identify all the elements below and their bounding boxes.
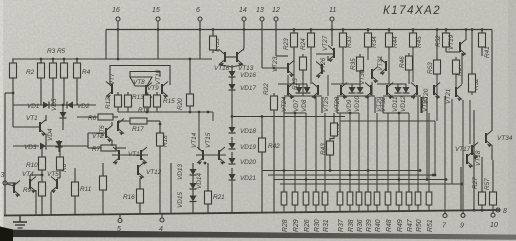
wire R11-gnd <box>74 196 76 215</box>
resistor R31 <box>322 189 328 208</box>
resistor R6 <box>95 114 116 120</box>
wire R41 top <box>481 30 483 34</box>
wire link <box>371 82 373 96</box>
wire R41 bot <box>481 47 483 56</box>
wire R39 gnd <box>367 205 369 211</box>
resistor R12 <box>115 92 122 110</box>
wire R52 bot <box>445 47 447 52</box>
wire VT2 base v <box>87 133 89 148</box>
wire R45 top <box>412 30 414 34</box>
wire bus A <box>262 170 420 172</box>
wire mirror loop inner <box>130 72 160 78</box>
resistor R11 <box>72 179 79 199</box>
wire pin3-VT3 <box>7 184 14 186</box>
diode VD4 <box>56 141 63 147</box>
wire R30 gnd <box>315 205 317 212</box>
wire link <box>287 75 289 96</box>
wire pin5 stub <box>119 214 121 218</box>
wire bus C <box>274 179 446 181</box>
wire VT5 base h <box>57 177 60 179</box>
wire pin13-VT23 base <box>262 67 288 69</box>
wire R34 top <box>367 30 369 34</box>
wire VD21 top <box>231 168 233 174</box>
wire vd chain b <box>192 175 194 183</box>
wire vd chain a <box>192 163 194 169</box>
wire R10 top <box>41 146 43 157</box>
resistor R15 <box>154 92 161 110</box>
wire R50 gnd <box>417 205 419 211</box>
wire pin3 up <box>4 93 6 183</box>
wire pin12 link <box>276 55 288 57</box>
resistor R41 <box>479 30 486 50</box>
wire s3 top bus <box>377 83 406 85</box>
resistor R30 <box>313 189 319 208</box>
wire pin13 drop <box>261 30 263 63</box>
wire R19 top <box>102 163 104 176</box>
pin 7 <box>443 214 447 218</box>
diode VD19 <box>229 143 236 149</box>
pin 3 <box>3 181 7 185</box>
wire VT1 base <box>12 105 14 127</box>
wire link <box>417 97 419 192</box>
page corner shadow <box>0 227 13 241</box>
wire bus E <box>340 120 435 122</box>
wire R39 drop <box>367 113 369 192</box>
wire rail1-rail2 corner <box>105 30 107 60</box>
wire R20 top <box>189 59 191 94</box>
pin 6 <box>198 17 202 21</box>
wire res col 41 bottom <box>40 78 42 105</box>
transistor VT28 <box>341 83 347 100</box>
wire R22 gnd <box>273 110 275 212</box>
wire R52 top <box>445 30 447 34</box>
wire link <box>359 71 361 84</box>
wire VT26 coll <box>327 56 329 61</box>
wire col474 <box>473 110 475 210</box>
wire R25 down <box>302 70 304 80</box>
wire VD8 top <box>306 84 308 87</box>
wire s1 bottom link <box>284 112 306 114</box>
resistor R42 <box>259 135 266 155</box>
wire vd chain c <box>192 189 194 196</box>
wire R20 dn <box>189 106 191 112</box>
diode VD12 <box>403 87 410 93</box>
wire pin 10 stub <box>492 210 494 213</box>
pin 11 <box>330 17 334 21</box>
wire VT2 coll <box>111 122 113 126</box>
wire secondary rail <box>12 58 212 60</box>
wire VT34-R57 <box>492 160 494 192</box>
wire VD17 down <box>231 90 233 98</box>
wire R23-VT23 <box>293 47 295 61</box>
wire res col 64 top <box>63 59 65 63</box>
wire R17 left <box>118 120 127 122</box>
wire R48 gnd <box>387 205 389 211</box>
wire VT1 coll <box>45 115 47 121</box>
wire pin15 drop <box>157 30 159 60</box>
pin 4 <box>160 218 164 222</box>
wire VT16 emit link <box>219 65 232 68</box>
diode VD9 <box>349 87 356 93</box>
resistor R43 <box>327 138 334 158</box>
resistor R54 <box>453 57 460 77</box>
wire R8 top <box>59 146 61 157</box>
wire VT2 emit <box>111 140 113 146</box>
wire R55 top <box>212 30 214 37</box>
resistor col 77 <box>74 60 81 81</box>
transistor VT7 <box>106 82 112 99</box>
wire mirror loop outer <box>110 66 170 86</box>
wire VT4 emit dn <box>35 190 37 215</box>
wire VD18 top <box>231 121 233 127</box>
wire s1 top bus <box>278 83 307 85</box>
diode VD16 <box>229 71 236 77</box>
resistor col 41 <box>38 60 45 81</box>
wire R53 top <box>436 30 438 61</box>
transistor VT1 <box>40 120 46 137</box>
transistor VT29 <box>365 83 371 100</box>
diode VD17 <box>229 84 236 90</box>
wire VD5 top <box>62 105 64 112</box>
pin 8 <box>496 208 500 212</box>
diode VD5 <box>60 112 67 118</box>
resistor R13 <box>125 92 132 110</box>
wire R49 gnd <box>398 205 400 211</box>
wire VD19 top <box>231 137 233 143</box>
wire R37 drop <box>339 113 341 192</box>
resistor R21 <box>205 188 212 207</box>
resistor R39 <box>365 189 371 208</box>
wire R31 drop <box>324 113 326 192</box>
resistor R1 <box>10 60 17 81</box>
wire left top link <box>5 92 13 94</box>
resistor R26 <box>303 189 309 208</box>
wire VT5-R11 <box>74 168 76 182</box>
diode VD14 <box>190 183 197 189</box>
wire R49 drop <box>398 113 400 192</box>
wire VT1 base2 <box>13 126 40 128</box>
wire VT13 emit link <box>232 65 243 68</box>
wire R42 gnd <box>261 152 263 213</box>
wire pin 6 stub <box>199 21 201 30</box>
wire pin12 drop <box>275 30 277 57</box>
diode VD7 <box>296 87 303 93</box>
resistor R23 <box>291 30 298 50</box>
diode VD10 <box>357 87 364 93</box>
wire col462 <box>461 53 463 84</box>
wire R29 gnd <box>294 205 296 212</box>
resistor R34 <box>365 30 372 50</box>
resistor R7 <box>98 145 119 151</box>
wire pin7 column <box>444 96 446 211</box>
wire VD chain link <box>231 98 233 121</box>
wire s2 top bus <box>331 83 360 85</box>
transistor VT31 <box>380 59 386 76</box>
transistor VT14 VT15 pair <box>196 147 226 165</box>
wire VT11 emit dn <box>170 163 172 214</box>
wire VD4 top <box>58 140 60 141</box>
transistor VT34 <box>486 131 492 148</box>
resistor R48 <box>385 189 391 208</box>
wire bus B <box>268 174 433 176</box>
wire R21 top <box>207 163 209 191</box>
node pin11 junction <box>331 28 334 31</box>
diode VD1 <box>43 102 49 109</box>
wire VT16-13 base <box>225 56 237 58</box>
wire vd chain d <box>192 202 194 214</box>
resistor R49 <box>396 189 402 208</box>
wire pin 16 stub <box>117 21 119 30</box>
wire R10-R9 <box>41 170 43 182</box>
wire R47 gnd <box>408 205 410 211</box>
resistor R18 <box>157 130 164 149</box>
resistor R25 <box>300 54 307 73</box>
wire pin3 down <box>4 183 6 215</box>
wire R53 dn <box>436 85 438 121</box>
transistor VT12 <box>138 163 144 180</box>
wire ground bus <box>4 210 500 216</box>
resistor R16 <box>137 186 144 206</box>
wire R33 top <box>342 30 344 34</box>
resistor R40 <box>374 189 380 208</box>
wire pin16 drop <box>117 30 119 60</box>
diode VD13 <box>190 169 197 175</box>
wire resistor bottoms bus <box>118 111 213 113</box>
transistor VT11 pair <box>112 147 148 165</box>
wire pin 7 stub <box>444 211 446 214</box>
pin 9 <box>461 213 465 217</box>
wire R46-R43 link2 <box>330 138 334 140</box>
wire R13 dn <box>127 107 129 112</box>
resistor col 53 <box>50 60 57 81</box>
wire R26 drop <box>305 113 307 192</box>
wire bus dn right <box>212 112 214 121</box>
wire VT27 base link <box>316 53 334 55</box>
wire link <box>421 97 423 113</box>
wire R43 down <box>329 155 331 171</box>
pin 10 <box>491 213 495 217</box>
resistor R46 <box>406 53 413 73</box>
wire pin6 drop <box>199 30 201 60</box>
resistor R29 <box>292 189 298 208</box>
wire R1 top <box>12 59 14 62</box>
resistor R35 <box>357 54 364 74</box>
wire col470 <box>469 100 471 144</box>
wire VD16 top <box>231 65 233 71</box>
wire link <box>408 70 410 84</box>
resistor R47 <box>406 189 412 208</box>
resistor R19 <box>100 173 107 193</box>
wire R9-gnd <box>41 196 43 215</box>
wire VT4 coll <box>29 175 31 179</box>
wire R36 gnd <box>358 205 360 212</box>
wire R28 drop <box>283 113 285 192</box>
wire R37 gnd <box>339 205 341 212</box>
stage s1 <box>284 96 322 113</box>
wire R38 gnd <box>349 205 351 212</box>
diode VD11 <box>395 87 402 93</box>
stage s2 <box>337 96 375 113</box>
resistor R17 <box>127 118 150 124</box>
wire s2 bottom link <box>337 112 359 114</box>
wire link <box>315 97 317 192</box>
wire link <box>310 50 312 84</box>
resistor R24 <box>308 30 315 50</box>
transistor VT13 <box>237 50 243 67</box>
resistor R27 <box>479 189 486 208</box>
resistor R45 <box>410 30 417 50</box>
resistor R9 <box>39 179 46 199</box>
transistor VT9 <box>146 83 152 100</box>
wire R23 top <box>293 30 295 34</box>
resistor R52 <box>443 30 450 50</box>
resistor R33 <box>340 30 347 50</box>
wire R50 drop <box>417 113 419 192</box>
wire R52-VT19 <box>446 51 460 53</box>
wire R32 top <box>471 30 473 75</box>
wire VT14 coll <box>198 112 200 150</box>
wire R46-R43 link <box>333 136 335 139</box>
wire R19 gnd <box>102 190 104 214</box>
wire R40 drop <box>376 113 378 192</box>
resistor R22 <box>271 93 278 113</box>
wire R17 right <box>147 120 160 122</box>
wire R8-VT5 <box>59 170 61 178</box>
wire VT1 emit <box>45 134 47 146</box>
wire pin 11 stub <box>331 21 333 30</box>
wire R29 drop <box>294 113 296 192</box>
wire pin14 drop <box>243 30 245 49</box>
resistor R37 <box>337 189 343 208</box>
diode VD3 <box>40 143 46 150</box>
transistor VT24 <box>288 83 294 100</box>
wire R16 top <box>139 178 141 189</box>
diode VD15 <box>190 196 197 202</box>
resistor R20 <box>187 91 194 109</box>
wire R36 drop <box>358 113 360 192</box>
wire R44 top <box>388 30 390 34</box>
wire VT21 emit column <box>451 99 453 184</box>
transistor VT17 <box>472 143 478 160</box>
wire R26 gnd <box>305 205 307 212</box>
resistor R36 <box>356 189 362 208</box>
wire VT2 base h <box>88 132 106 134</box>
wire R48 drop <box>387 113 389 192</box>
wire R38 drop <box>349 113 351 192</box>
wire link <box>367 97 369 192</box>
wire R28 gnd <box>283 205 285 212</box>
wire link <box>342 48 344 84</box>
wire VD10 top <box>359 84 361 87</box>
wire R46m top <box>333 113 335 123</box>
wire link <box>293 61 295 84</box>
pin 12 <box>274 17 278 21</box>
wire VD5 bottom <box>62 118 64 130</box>
stage s3 <box>383 96 421 113</box>
resistor R51 <box>426 189 432 208</box>
wire pin 15 stub <box>157 21 159 30</box>
resistor R53 <box>434 57 441 77</box>
transistor VT32 <box>387 83 393 100</box>
transistor VT10 <box>162 82 168 99</box>
wire VT20 emit column <box>426 97 428 180</box>
wire res col 41 top <box>40 59 42 63</box>
wire R55-VT16 <box>213 50 219 51</box>
wire bus D <box>280 183 462 185</box>
ground <box>13 216 27 229</box>
resistor R32 <box>469 71 476 95</box>
wire pin 13 stub <box>261 21 263 30</box>
resistor col 64 <box>61 60 68 81</box>
wire R24 top <box>310 30 312 34</box>
wire R15 dn <box>156 107 158 112</box>
resistor R50 <box>415 189 421 208</box>
wire VD4 bottom <box>58 147 60 152</box>
wire top supply rail <box>106 29 492 31</box>
wire R1 bottom <box>12 78 14 105</box>
wire R27 gnd <box>481 205 483 210</box>
wire link <box>388 48 390 84</box>
wire VD3-VD4 <box>47 145 88 147</box>
transistor VT26 <box>316 62 322 79</box>
wire R21 gnd <box>207 204 209 213</box>
pin 14 <box>242 17 246 21</box>
wire VT19 coll <box>465 30 467 41</box>
wire link <box>283 97 285 113</box>
transistor VT25 <box>312 83 318 100</box>
wire VD20 top <box>231 152 233 158</box>
wire s3 bottom link <box>383 112 409 114</box>
resistor R44 <box>386 30 393 50</box>
resistor R55 <box>210 33 217 53</box>
wire res col 77 top <box>76 59 78 63</box>
diode VD18 <box>229 127 236 133</box>
wire bus F <box>232 116 345 118</box>
wire VD21 gnd <box>231 180 233 213</box>
transistor VT3 <box>14 181 20 198</box>
transistor VT4 <box>30 177 36 194</box>
wire R57 gnd <box>492 205 494 210</box>
wire pin 9 stub <box>462 210 464 213</box>
wire VT4 base h <box>30 174 42 176</box>
wire R30 drop <box>315 113 317 192</box>
transistor VT18 <box>467 152 473 169</box>
wire link <box>367 48 369 60</box>
wire VD12 top <box>405 84 407 87</box>
pin 13 <box>260 17 264 21</box>
transistor VT27 <box>328 46 334 63</box>
wire VT17-R27 <box>481 157 483 192</box>
wire pin 12 stub <box>275 21 277 30</box>
wire R12 dn <box>117 107 119 112</box>
wire R6-VT6 <box>113 116 118 118</box>
diode VD21 <box>229 174 236 180</box>
page bottom shadow band <box>0 230 516 240</box>
wire link <box>412 48 414 82</box>
transistor VT30 <box>372 67 378 84</box>
wire res col 53 top <box>52 59 54 63</box>
wire R6 left <box>77 116 95 118</box>
transistor VT21 <box>456 85 462 102</box>
wire R31 gnd <box>324 205 326 212</box>
wire R7 right <box>116 147 126 149</box>
transistor VT20 <box>434 83 440 100</box>
wire VD11 top <box>397 84 399 87</box>
wire pin 14 stub <box>243 21 245 30</box>
transistor VT16 <box>219 50 225 67</box>
wire R18 top <box>159 121 161 133</box>
wire VT34 emit down <box>491 145 493 160</box>
